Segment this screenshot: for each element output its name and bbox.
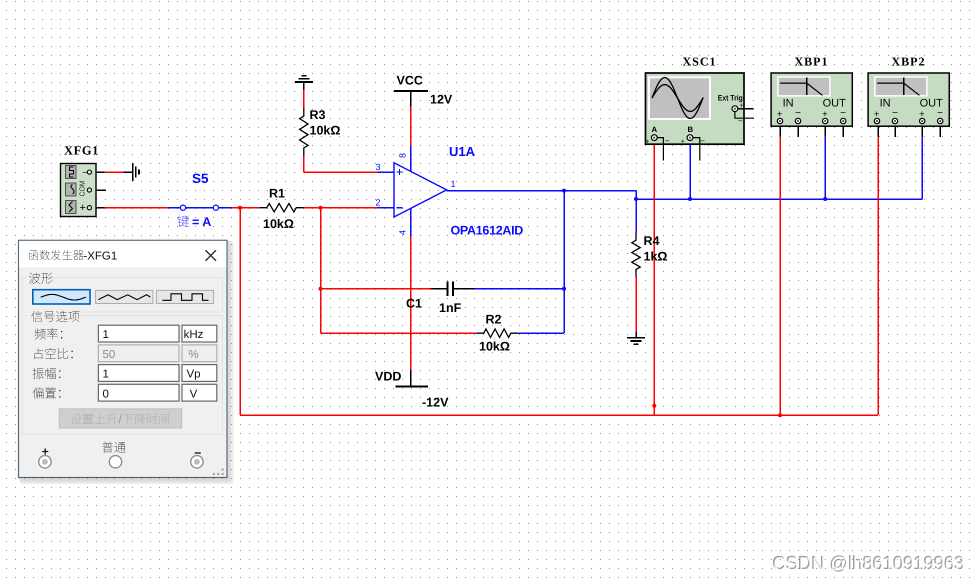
svg-text:IN: IN: [880, 98, 891, 110]
svg-text:50: 50: [103, 349, 116, 361]
svg-text:XSC1: XSC1: [683, 55, 717, 69]
svg-text:+: +: [645, 139, 649, 146]
svg-text:U1A: U1A: [449, 144, 476, 159]
svg-text:= A: = A: [192, 215, 211, 229]
svg-text:R3: R3: [310, 108, 326, 122]
svg-text:C1: C1: [406, 297, 422, 311]
svg-text:1kΩ: 1kΩ: [644, 250, 668, 264]
svg-text:−: −: [840, 108, 846, 119]
svg-text:A: A: [652, 125, 658, 134]
svg-text:OPA1612AID: OPA1612AID: [451, 224, 524, 238]
svg-text:3: 3: [376, 162, 381, 172]
svg-text:10kΩ: 10kΩ: [263, 217, 294, 231]
svg-text:10kΩ: 10kΩ: [479, 340, 510, 354]
svg-text:VDD: VDD: [375, 370, 401, 384]
svg-text:−: −: [795, 108, 801, 119]
svg-text:1: 1: [451, 179, 456, 189]
svg-text:1: 1: [103, 329, 109, 341]
svg-text:CSDN @lh8610919963: CSDN @lh8610919963: [773, 554, 965, 575]
svg-text:1nF: 1nF: [439, 301, 462, 315]
svg-text:10kΩ: 10kΩ: [310, 124, 341, 138]
svg-text:R4: R4: [644, 234, 660, 248]
svg-text:XFG1: XFG1: [64, 144, 99, 158]
svg-text:V: V: [190, 388, 198, 400]
svg-text:IN: IN: [783, 98, 794, 110]
svg-text:+: +: [681, 139, 685, 146]
svg-text:%: %: [188, 349, 198, 361]
svg-text:0: 0: [103, 388, 109, 400]
svg-text:XBP2: XBP2: [892, 55, 926, 69]
svg-text:12V: 12V: [430, 93, 453, 107]
svg-text:B: B: [688, 125, 694, 134]
svg-text:Vp: Vp: [186, 369, 200, 381]
svg-text:−: −: [82, 168, 87, 178]
svg-text:1: 1: [103, 369, 109, 381]
svg-text:−: −: [700, 137, 705, 146]
svg-text:-12V: -12V: [422, 396, 449, 410]
svg-text:-XFG1: -XFG1: [83, 250, 117, 262]
svg-text:kHz: kHz: [184, 329, 204, 341]
svg-text:+: +: [80, 202, 86, 214]
svg-text:S5: S5: [192, 171, 209, 186]
svg-text:+: +: [740, 103, 744, 110]
svg-text:2: 2: [376, 198, 381, 208]
svg-text:R2: R2: [486, 313, 502, 327]
svg-text:VCC: VCC: [397, 74, 423, 88]
svg-text:Ext Trig: Ext Trig: [718, 93, 743, 102]
svg-text:4: 4: [398, 230, 408, 235]
svg-text:8: 8: [398, 153, 408, 158]
svg-text:−: −: [738, 117, 743, 126]
svg-text:R1: R1: [269, 187, 285, 201]
svg-text:−: −: [892, 108, 898, 119]
svg-text:−: −: [665, 137, 670, 146]
svg-text:−: −: [937, 108, 943, 119]
svg-text:COM: COM: [78, 181, 87, 197]
svg-text:XBP1: XBP1: [795, 55, 829, 69]
